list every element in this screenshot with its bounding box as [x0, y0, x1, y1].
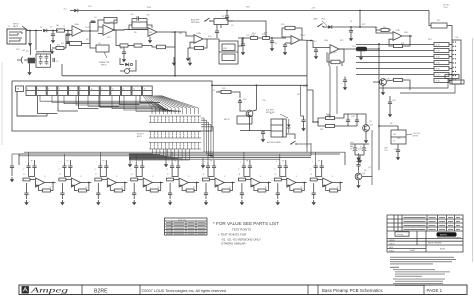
input jack J1: [7, 29, 26, 44]
wire from dark box to U5B: [370, 27, 376, 30]
capacitor C76: [248, 165, 252, 167]
ground exit 1: [129, 162, 131, 164]
ground hang 2: [189, 57, 191, 61]
box filter F1: [431, 23, 447, 28]
ground FB1: [360, 51, 362, 55]
capacitor C13: [314, 49, 318, 51]
slide pot P8: [100, 86, 110, 96]
svg-text:15: 15: [393, 141, 395, 143]
relay K2 box: [271, 119, 283, 137]
ground C1: [52, 38, 54, 40]
resistor R88: [310, 178, 317, 181]
diode D4 spare: [125, 63, 129, 67]
svg-text:R*: R*: [157, 187, 159, 189]
svg-text:OTHERS SIMILAR: OTHERS SIMILAR: [221, 242, 245, 246]
bottom title bar frame: [19, 285, 467, 295]
wire stage out: [197, 182, 200, 184]
slide pot P2: [37, 86, 47, 96]
wire U1B out: [114, 29, 124, 31]
wire stage caps join: [316, 172, 322, 177]
wire stage fb: [152, 183, 161, 191]
resistor R80: [23, 178, 30, 181]
wire q1 collector: [253, 110, 257, 111]
wire left riser to pad: [61, 64, 63, 76]
ground U2A: [188, 48, 190, 56]
wire stage in: [245, 179, 251, 181]
svg-text:C4: C4: [94, 17, 96, 19]
relay K1 block: [214, 19, 228, 25]
svg-text:12: 12: [112, 89, 114, 91]
svg-text:U1C: U1C: [171, 32, 175, 34]
wire stub: [449, 62, 452, 64]
resistor RN4: [434, 61, 449, 65]
svg-text:C16: C16: [88, 6, 91, 8]
wire R2 to U1A: [65, 30, 73, 32]
ferrite FB1 dark box: [356, 47, 367, 51]
capacitor C85: [204, 192, 208, 194]
transistor Q6: [380, 79, 387, 86]
svg-text:MUTE: MUTE: [224, 119, 230, 121]
resistor R94 fb: [186, 189, 194, 192]
svg-text:R*: R*: [337, 187, 339, 189]
diode D8: [357, 158, 361, 162]
svg-text:U1A: U1A: [75, 23, 80, 26]
svg-text:R15: R15: [264, 33, 267, 35]
wire exit: [129, 149, 178, 158]
wire to Q base: [240, 106, 246, 111]
resistor R3 feedback: [70, 42, 82, 46]
main block rows: [387, 237, 463, 239]
svg-text:R5: R5: [26, 51, 28, 53]
svg-text:C*: C*: [23, 169, 25, 171]
ground R4: [51, 49, 53, 51]
resistor R91 fb: [78, 189, 86, 192]
capacitor C65: [206, 165, 210, 167]
wire stage out: [340, 182, 343, 184]
capacitor C51 bulk: [362, 147, 366, 149]
resistor R92 fb: [114, 189, 122, 192]
ground C15: [350, 36, 352, 38]
wire fan: [151, 96, 172, 115]
capacitor C80: [24, 192, 28, 194]
wire stage out: [125, 182, 128, 184]
ground stage: [241, 200, 243, 202]
svg-text:Q5: Q5: [98, 43, 101, 45]
wire stage fb: [116, 183, 125, 191]
svg-text:L1: L1: [63, 26, 65, 28]
resistor R14: [251, 37, 258, 40]
svg-text:CHECK: CHECK: [389, 243, 396, 245]
op-amp U76: [251, 178, 260, 187]
wire x307 to bus: [306, 148, 308, 152]
svg-text:C10: C10: [246, 35, 249, 37]
wire stage in: [210, 179, 216, 181]
svg-text:J1: J1: [8, 26, 10, 28]
right edge scan line: [472, 38, 474, 262]
wire nest: [201, 120, 213, 153]
capacitor C82: [96, 192, 100, 194]
transistor Q1 mute: [246, 110, 253, 117]
wire stair: [120, 96, 140, 105]
box spare transistor: [96, 45, 109, 52]
wire U5B out: [403, 35, 413, 37]
wire stage caps join: [208, 172, 214, 177]
wire exit: [129, 149, 190, 160]
opto block U4: [219, 41, 238, 64]
resistor R82: [95, 178, 102, 181]
EQ stage 2 test point: [63, 154, 65, 163]
wire stair: [58, 96, 78, 112]
svg-text:K2: K2: [270, 113, 272, 115]
wire mute drop x256: [255, 85, 257, 110]
logo glyph box: [22, 286, 29, 293]
wire stage caps join: [172, 172, 178, 177]
svg-text:C*: C*: [310, 169, 312, 171]
wire rail drop at x429: [428, 11, 430, 25]
wire pot bus: [64, 96, 167, 113]
wire pot bus: [136, 96, 181, 113]
svg-text:VR1: VR1: [16, 49, 20, 51]
svg-text:C40: C40: [351, 116, 354, 118]
wire U2A out: [204, 38, 214, 40]
wire nest: [201, 125, 213, 157]
wire stage out: [89, 182, 92, 184]
svg-text:TL072: TL072: [300, 35, 305, 37]
label above black box: [439, 230, 451, 233]
wire stage caps join: [244, 172, 250, 177]
EQ stage 9 test point: [315, 152, 317, 163]
wire reg top: [397, 126, 399, 130]
resistor R9a: [120, 44, 128, 47]
EQ stage 5 test point: [171, 152, 173, 163]
wire stage fb: [332, 183, 341, 191]
black logo box: [437, 232, 457, 236]
transistor Q4: [355, 173, 362, 180]
rev row text: [404, 217, 426, 218]
wire nest: [201, 122, 213, 155]
svg-text:+ TEST POINTS FOR: + TEST POINTS FOR: [218, 232, 246, 236]
wire stage in: [174, 179, 180, 181]
op-amp U78: [323, 178, 332, 187]
svg-text:AMPEG: AMPEG: [440, 234, 448, 237]
wire fan: [148, 96, 164, 115]
small box right edge 2: [450, 80, 464, 84]
svg-text:R14: R14: [252, 33, 255, 35]
svg-text:+15: +15: [212, 90, 215, 92]
svg-text:C2: C2: [50, 27, 52, 29]
ground stage: [169, 200, 171, 202]
wire U5A fb: [327, 52, 331, 62]
wire exit: [129, 149, 171, 157]
svg-text:R19: R19: [333, 52, 336, 54]
ground C8a: [123, 57, 125, 59]
ground stage: [133, 200, 135, 202]
wire chain y38: [238, 37, 250, 39]
resistor R6B fb box over U1B: [104, 18, 117, 24]
capacitor C10 to gnd: [241, 43, 245, 45]
capacitor C28: [238, 100, 242, 102]
svg-text:Q4: Q4: [368, 167, 371, 169]
capacitor C71: [68, 165, 72, 167]
wire exit: [129, 149, 175, 157]
connector pin row: [149, 131, 201, 133]
resistor R12 fb: [195, 46, 204, 49]
resistor R86: [238, 178, 245, 181]
svg-text:R*: R*: [85, 187, 87, 189]
wire exit: [129, 149, 164, 155]
svg-text:K1: K1: [222, 16, 224, 18]
wire stage fb: [224, 183, 233, 191]
svg-text:Ampeg: Ampeg: [29, 286, 68, 295]
wire exit: [129, 149, 156, 154]
svg-text:Q3: Q3: [369, 121, 372, 123]
ground divider: [29, 70, 31, 72]
capacitor C61: [62, 165, 66, 167]
svg-text:R10: R10: [107, 37, 110, 39]
resistor R9b: [134, 44, 142, 47]
cap stub mid: [344, 77, 346, 81]
wire bus top line: [24, 151, 345, 153]
wire exit: [129, 149, 153, 154]
resistor R4: [56, 47, 64, 50]
jack J2 switch: [205, 18, 210, 21]
capacitor C3b in box: [45, 56, 49, 58]
wire divider bottom: [29, 63, 31, 70]
wire r32 drop: [307, 90, 318, 122]
ground jack sleeve: [29, 41, 31, 43]
resistor R87: [274, 178, 281, 181]
wire stub: [449, 68, 452, 70]
jack J3 switch: [318, 24, 323, 27]
EQ stage 6 test point: [207, 154, 209, 163]
capacitor C29: [261, 131, 265, 133]
EQ stage 3 test point: [99, 152, 101, 163]
svg-text:Bass Preamp PCB Schematics: Bass Preamp PCB Schematics: [322, 288, 383, 293]
svg-text:C30: C30: [262, 100, 265, 102]
svg-text:U2A: U2A: [197, 32, 202, 35]
EQ stage 8 test point: [279, 154, 281, 163]
svg-text:4K7: 4K7: [297, 94, 300, 96]
ground stage: [277, 200, 279, 202]
left edge scan line: [1, 62, 3, 145]
capacitor C68: [314, 165, 318, 167]
resistor R9c: [157, 45, 166, 49]
svg-text:TEST POINTS: TEST POINTS: [232, 227, 251, 231]
ground stage: [26, 200, 28, 202]
wire into U2A: [182, 32, 194, 36]
notes heading smudge: [390, 267, 399, 268]
svg-text:R*: R*: [265, 187, 267, 189]
ground C52: [397, 155, 399, 157]
capacitor C2: [66, 33, 70, 35]
wire main jog: [313, 41, 330, 48]
capacitor C52 reg: [396, 149, 400, 151]
wire stage out: [304, 182, 307, 184]
svg-text:J10: J10: [455, 37, 458, 39]
capacitor C70: [32, 165, 36, 167]
svg-text:R6: R6: [43, 51, 45, 53]
op-amp U1C: [148, 28, 157, 37]
ground bulk: [359, 158, 361, 160]
jack J4 switch: [291, 141, 296, 144]
EQ stage 7 test point: [243, 152, 245, 163]
capacitor C11: [270, 40, 274, 42]
wire stair: [79, 96, 99, 109]
svg-text:R4: R4: [61, 43, 63, 45]
svg-text:C6: C6: [117, 10, 119, 12]
resistor R96 fb: [258, 189, 266, 192]
capacitor C60: [26, 165, 30, 167]
wire rail drop x360: [359, 11, 361, 28]
bar divider 3: [307, 285, 309, 295]
wire stage in: [30, 179, 36, 181]
svg-text:C52: C52: [397, 138, 400, 140]
resistor R7 feedback box: [132, 22, 147, 28]
slide pot P9: [111, 86, 121, 96]
svg-text:LINE: LINE: [313, 19, 318, 21]
capacitor C1: [51, 33, 55, 35]
wire stage fb: [296, 183, 305, 191]
wire opto: [213, 39, 219, 41]
jack switch contact blob: [28, 58, 35, 64]
connector pin row: [149, 115, 201, 117]
capacitor C3c right: [52, 58, 54, 62]
wire long vertical x307: [306, 40, 308, 148]
diode D6 relay: [287, 125, 291, 128]
wire bus line 3: [129, 157, 311, 159]
resistor R45: [394, 78, 403, 81]
svg-text:U6: U6: [390, 123, 392, 125]
svg-text:ASSY: ASSY: [137, 135, 143, 138]
main block columns: [416, 231, 418, 245]
wire stage in: [66, 179, 72, 181]
revision rows: [387, 218, 463, 220]
resistor R97 fb: [294, 189, 302, 192]
op-amp U70: [36, 178, 45, 187]
svg-text:BASS PREAMP: BASS PREAMP: [428, 242, 442, 245]
wire stage out: [53, 182, 56, 184]
diode D3: [328, 25, 332, 29]
wire mute rail y85: [212, 84, 307, 86]
wire R4: [64, 43, 66, 48]
wire exit: [129, 149, 160, 155]
wire fan: [154, 96, 179, 115]
svg-text:PAGE 1: PAGE 1: [427, 288, 443, 293]
slide pot P1: [26, 86, 36, 96]
small box right edge: [445, 75, 459, 79]
svg-text:LDR: LDR: [223, 48, 228, 50]
svg-text:R29: R29: [243, 99, 246, 101]
wire U2B fb: [282, 28, 291, 37]
wire fan: [143, 96, 152, 115]
resistor R93 fb: [150, 189, 158, 192]
svg-text:RETURN: RETURN: [191, 22, 200, 24]
resistor R81: [59, 178, 66, 181]
wire pot bus: [100, 96, 174, 113]
bar divider 4: [317, 285, 319, 295]
svg-text:C*: C*: [202, 169, 204, 171]
wire divider top: [30, 44, 32, 55]
capacitor C91: [356, 164, 360, 166]
slide pot P11: [132, 86, 142, 96]
title block table: [387, 215, 463, 252]
wire fan: [157, 96, 187, 115]
jack switch arc: [21, 57, 22, 64]
ground Q4: [358, 183, 360, 185]
wire x300 drop: [300, 85, 302, 116]
op-amp U72: [107, 178, 116, 187]
svg-text:14: 14: [133, 89, 135, 91]
capacitor C74: [176, 165, 180, 167]
diode D1: [74, 9, 78, 13]
slide pot P10: [121, 86, 131, 96]
svg-text:SHEET: SHEET: [410, 250, 415, 252]
op-amp U2A: [194, 35, 203, 44]
bar divider 5: [423, 285, 425, 295]
resistor RN3: [434, 55, 449, 59]
svg-text:13: 13: [122, 89, 124, 91]
wire into U1B: [92, 27, 103, 31]
wire stair closure: [17, 114, 47, 117]
wire fan: [145, 96, 156, 115]
svg-text:RP1: RP1: [428, 39, 432, 41]
wire stage caps join: [100, 172, 106, 177]
svg-text:R28: R28: [222, 88, 225, 90]
wire stage in: [317, 179, 323, 181]
resistor RN1: [434, 43, 449, 47]
wire stub: [449, 80, 452, 82]
svg-text:R*: R*: [229, 187, 231, 189]
wire line out y27: [323, 26, 370, 28]
capacitor C88: [312, 192, 316, 194]
wire aux bus y21: [228, 21, 266, 37]
slide pot P5: [68, 86, 78, 96]
capacitor C86: [240, 192, 244, 194]
ground U1C noninv: [149, 37, 151, 38]
ground C31: [303, 126, 305, 128]
capacitor C87: [276, 192, 280, 194]
op-amp U74: [179, 178, 188, 187]
svg-text:R32: R32: [303, 86, 306, 88]
junction line out: [350, 26, 352, 28]
svg-text:R20: R20: [383, 27, 386, 29]
wire vertical x175 lower: [174, 37, 176, 76]
wire reg bottom: [397, 144, 399, 150]
bar divider 2: [139, 285, 141, 295]
resistor R85: [203, 178, 210, 181]
wire stage out: [161, 182, 164, 184]
wire relay right: [286, 134, 295, 139]
wire pot bus: [112, 96, 176, 113]
wire node to spare: [90, 33, 96, 48]
svg-text:©2007 LOUD Technologies Inc.: ©2007 LOUD Technologies Inc. All rights …: [142, 289, 226, 293]
wire q6 group: [386, 80, 393, 81]
svg-text:6: 6: [48, 89, 49, 91]
slide pot P4: [58, 86, 68, 96]
wire stair: [140, 96, 160, 103]
wire long vertical x379: [378, 44, 380, 170]
svg-text:4: 4: [27, 89, 28, 91]
wire exit: [129, 149, 186, 159]
capacitor C50 bulk: [353, 147, 357, 149]
svg-text:R7: R7: [131, 14, 133, 16]
volume pot VR2: [125, 69, 130, 74]
svg-text:C3: C3: [36, 53, 38, 55]
svg-text:15: 15: [144, 89, 146, 91]
op-amp U1B: [103, 25, 114, 36]
wire fb to opamp: [129, 25, 148, 30]
diode D2: [43, 29, 47, 33]
